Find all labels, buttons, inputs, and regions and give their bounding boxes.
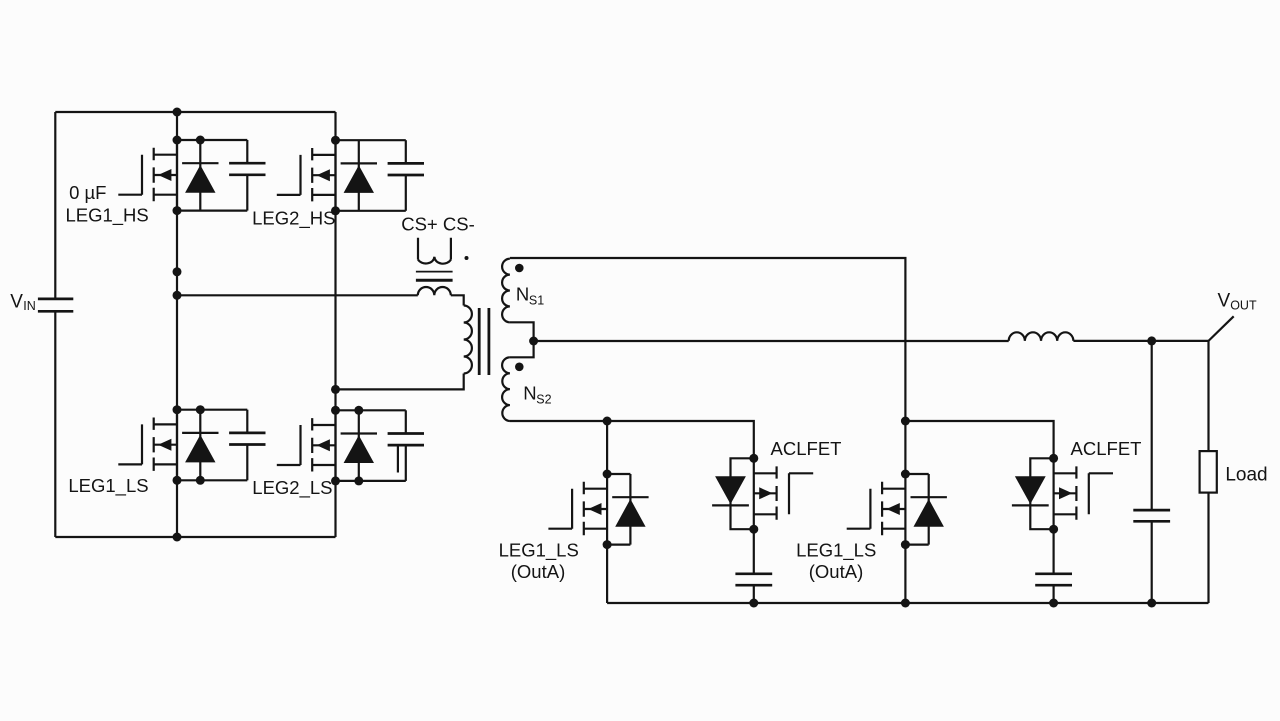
transistor LEG1_LS OutA 1 — [607, 473, 630, 475]
transistor LEG2_HS — [336, 139, 406, 141]
svg-text:N: N — [516, 283, 529, 304]
winding CS sense — [418, 238, 451, 264]
svg-text:LEG2_HS: LEG2_HS — [252, 208, 335, 230]
wire LEG2 leg — [334, 112, 336, 537]
wire left input rail upper — [54, 112, 56, 299]
svg-text:S1: S1 — [529, 293, 544, 307]
transistor LEG1_LS OutA 2 — [905, 473, 928, 475]
wire NS1 top to FET2 leg — [510, 258, 906, 474]
winding NS2 — [502, 357, 510, 421]
node ACLFET2 ground — [1049, 599, 1058, 608]
node LEG1 mid (OutA) — [173, 291, 182, 300]
capacitor ACLFET2 clamp — [1052, 529, 1054, 574]
wire LEG1 leg — [176, 112, 178, 537]
wire center tap to inductor — [534, 340, 1009, 342]
polarity dot NS1 — [515, 264, 524, 273]
core CS transformer — [416, 271, 453, 273]
capacitor Cout — [1151, 341, 1153, 510]
wire left input rail lower — [54, 311, 56, 537]
svg-text:(OutA): (OutA) — [511, 561, 565, 582]
svg-text:CS+ CS-: CS+ CS- — [401, 213, 475, 234]
node output cap junction — [1147, 336, 1156, 345]
wire inductor to VOUT — [1073, 340, 1208, 342]
wire top input rail — [55, 111, 335, 113]
node ACLFET1 ground — [749, 599, 758, 608]
transistor LEG2_LS — [336, 409, 406, 411]
svg-text:V: V — [1218, 291, 1231, 312]
svg-text:OUT: OUT — [1230, 298, 1257, 312]
wire NS2 bottom rectifier bus — [510, 421, 754, 458]
svg-text:LEG1_LS: LEG1_LS — [499, 540, 579, 562]
wire load to ground — [1207, 493, 1209, 603]
wire CS winding to primary top — [451, 295, 464, 305]
transistor ACLFET1 — [789, 473, 813, 514]
node LEG1 top rail junction — [173, 108, 182, 117]
node FET2 ground — [901, 599, 910, 608]
svg-text:ACLFET: ACLFET — [1071, 438, 1142, 459]
wire FET1 source to ground — [606, 545, 608, 603]
svg-text:Load: Load — [1225, 465, 1267, 486]
transistor LEG1_LS — [177, 409, 247, 411]
winding CS series — [418, 287, 451, 295]
polarity dot CS — [465, 256, 469, 260]
svg-text:V: V — [10, 291, 23, 312]
node LEG2 mid (primary return) — [331, 385, 340, 394]
transistor LEG1_HS — [177, 139, 247, 141]
inductor Lout — [1009, 332, 1074, 341]
node sync FET1 tap — [603, 417, 612, 426]
svg-text:(OutA): (OutA) — [809, 561, 863, 582]
svg-text:0 µF: 0 µF — [69, 182, 106, 203]
svg-text:LEG2_LS: LEG2_LS — [252, 477, 332, 499]
wire bus to ACLFET2 — [905, 421, 1053, 458]
svg-text:LEG1_LS: LEG1_LS — [796, 540, 876, 562]
wire FET2 source to ground — [904, 545, 906, 603]
svg-text:LEG1_LS: LEG1_LS — [68, 475, 148, 497]
svg-text:LEG1_HS: LEG1_HS — [65, 204, 148, 226]
node LEG1 mid upper — [173, 267, 182, 276]
node FET2 bus junction — [901, 417, 910, 426]
wire NS1 bottom to center tap — [510, 322, 534, 357]
capacitor VIN bulk — [38, 298, 73, 301]
wire VOUT to load — [1207, 341, 1209, 451]
svg-text:ACLFET: ACLFET — [771, 438, 842, 459]
winding T1 primary — [464, 306, 472, 374]
wire LEG1 mid to CS winding — [177, 294, 418, 296]
wire primary bottom to LEG2 mid — [336, 374, 464, 390]
svg-text:N: N — [523, 382, 536, 403]
node LEG1 bottom rail junction — [173, 533, 182, 542]
winding NS1 — [502, 259, 510, 323]
node Cout ground — [1147, 599, 1156, 608]
resistor Load — [1200, 451, 1217, 493]
wire bottom input rail — [55, 536, 335, 538]
svg-text:IN: IN — [23, 299, 36, 313]
transistor ACLFET2 — [1089, 473, 1113, 514]
core T1 — [478, 308, 481, 375]
svg-text:S2: S2 — [536, 392, 551, 406]
wire secondary ground rail — [607, 602, 1208, 604]
node center tap — [529, 337, 538, 346]
terminal VOUT probe — [1209, 316, 1234, 341]
wire FET1 drain drop — [606, 421, 608, 474]
capacitor ACLFET1 clamp — [753, 529, 755, 574]
polarity dot NS2 — [515, 363, 524, 372]
